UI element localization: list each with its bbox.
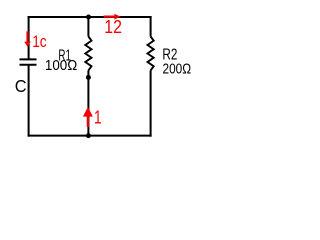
wire: left branch lower segment (capacitor bottom plate down to bottom wire)	[28, 65, 30, 136]
node dot at top junction of middle branch and top wire	[86, 15, 91, 20]
wire: right branch lower segment (R2 bottom to bottom wire)	[150, 70, 152, 136]
svg-text:100Ω: 100Ω	[45, 58, 77, 74]
capacitor C top plate	[20, 58, 37, 60]
current arrow Ic (downward) on left branch	[24, 31, 31, 46]
wire: middle branch upper stub (top junction down to R1 top)	[87, 16, 89, 37]
node dot at R1 bottom terminal	[86, 75, 91, 80]
resistor R1 zigzag body	[85, 37, 91, 71]
node dot at bottom junction of middle branch and bottom wire	[86, 133, 91, 138]
wire: right branch upper stub (top wire down to R2 top)	[150, 16, 152, 37]
wire: top wire from left corner to right corner	[28, 16, 152, 18]
svg-text:200Ω: 200Ω	[163, 60, 192, 77]
wire: middle branch lower segment (R1 bottom to bottom wire)	[87, 70, 89, 136]
current arrow I1 (upward) on middle branch	[83, 107, 93, 127]
wire: left branch upper segment (top wire down to capacitor top plate)	[28, 16, 30, 59]
svg-text:12: 12	[104, 17, 122, 37]
svg-text:1: 1	[94, 106, 102, 127]
svg-text:C: C	[15, 76, 27, 96]
wire: bottom wire from left corner to right corner	[28, 135, 152, 137]
capacitor C bottom plate	[20, 64, 37, 66]
svg-text:1c: 1c	[32, 33, 46, 51]
resistor R2 zigzag body	[148, 37, 154, 71]
current arrow I2 (rightward) on top wire	[104, 14, 121, 20]
